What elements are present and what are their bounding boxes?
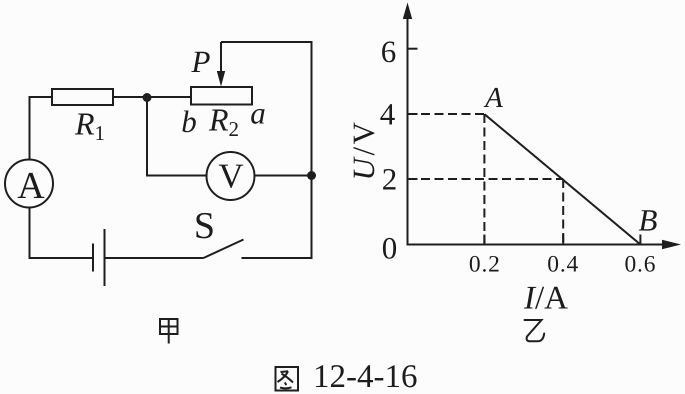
- label point B: [639, 203, 658, 238]
- wire top-left: corner to R1 left terminal: [29, 96, 54, 98]
- caption 12-4-16: [313, 359, 417, 394]
- wire voltmeter to right node: [255, 175, 312, 177]
- wire bottom-left to battery: [29, 257, 94, 259]
- svg-text:A: A: [483, 82, 503, 114]
- characteristic line A to B: [485, 114, 641, 244]
- x tick 0.4: [562, 235, 564, 245]
- voltmeter V: [207, 152, 255, 200]
- y tick 6: [408, 48, 418, 50]
- label P: [191, 44, 211, 79]
- label 0 origin: [382, 231, 398, 266]
- caption tu (hand-drawn glyph): [276, 367, 299, 391]
- node junction right of voltmeter: [307, 171, 316, 180]
- wire node to R2 left terminal b: [147, 96, 191, 98]
- y-axis with arrow: [403, 3, 412, 246]
- x-axis with arrow: [407, 240, 682, 250]
- label 4: [380, 97, 396, 132]
- label a: [250, 96, 266, 131]
- dashed guide I=0.4: [562, 179, 564, 245]
- wire slider to top-right corner: [221, 41, 313, 43]
- ammeter A: [5, 160, 53, 208]
- dashed guide U=4: [408, 113, 485, 115]
- x tick 0.2: [483, 235, 485, 245]
- label R1: [74, 106, 105, 146]
- label 0.6: [625, 251, 657, 277]
- svg-text:R1: R1: [74, 106, 105, 146]
- label 0.2: [469, 251, 501, 277]
- x tick 0.6: [639, 235, 641, 245]
- label b: [181, 104, 197, 139]
- y tick 4: [408, 113, 418, 115]
- node junction after R1: [143, 93, 152, 102]
- wire left vertical upper: [29, 96, 31, 160]
- rheostat R2 body: [191, 87, 252, 105]
- wire battery to switch: [105, 257, 204, 259]
- svg-text:6: 6: [381, 34, 397, 69]
- svg-text:2: 2: [382, 162, 398, 197]
- svg-text:R2: R2: [208, 102, 239, 142]
- y tick 2: [408, 178, 418, 180]
- label R2: [208, 102, 239, 142]
- wire left vertical lower: [29, 208, 31, 260]
- svg-text:0.6: 0.6: [625, 251, 657, 277]
- label point A: [483, 82, 503, 114]
- battery cell: [93, 229, 105, 286]
- svg-text:I/A: I/A: [523, 281, 568, 317]
- axis label U/V: [346, 120, 381, 181]
- label jia (circuit), hand-drawn glyph: [160, 319, 178, 344]
- svg-text:0.2: 0.2: [469, 251, 501, 277]
- svg-text:0.4: 0.4: [547, 251, 579, 277]
- switch S blade: [204, 240, 244, 259]
- svg-text:P: P: [191, 44, 211, 79]
- axis label I/A: [523, 281, 568, 317]
- svg-text:4: 4: [380, 97, 396, 132]
- label 0.4: [547, 251, 579, 277]
- svg-text:b: b: [181, 104, 197, 139]
- svg-text:A: A: [17, 165, 45, 207]
- resistor R1: [52, 89, 113, 105]
- label yi (graph), hand-drawn glyph: [525, 320, 545, 341]
- label 6: [381, 34, 397, 69]
- wire node down and right to voltmeter: [147, 98, 207, 176]
- label 2: [382, 162, 398, 197]
- dashed guide I=0.2: [483, 114, 485, 245]
- svg-text:S: S: [194, 205, 215, 247]
- label S: [194, 205, 215, 247]
- svg-text:B: B: [639, 203, 658, 238]
- svg-text:0: 0: [382, 231, 398, 266]
- svg-text:V: V: [218, 157, 243, 196]
- svg-text:12-4-16: 12-4-16: [313, 359, 417, 394]
- wire R1 to node: [113, 96, 148, 98]
- wire right vertical: [311, 41, 313, 258]
- wire switch to bottom-right corner: [242, 257, 313, 259]
- svg-text:U/V: U/V: [346, 120, 381, 181]
- dashed guide U=2: [408, 178, 564, 180]
- svg-text:a: a: [250, 96, 266, 131]
- rheostat slider arrow P: [217, 42, 225, 87]
